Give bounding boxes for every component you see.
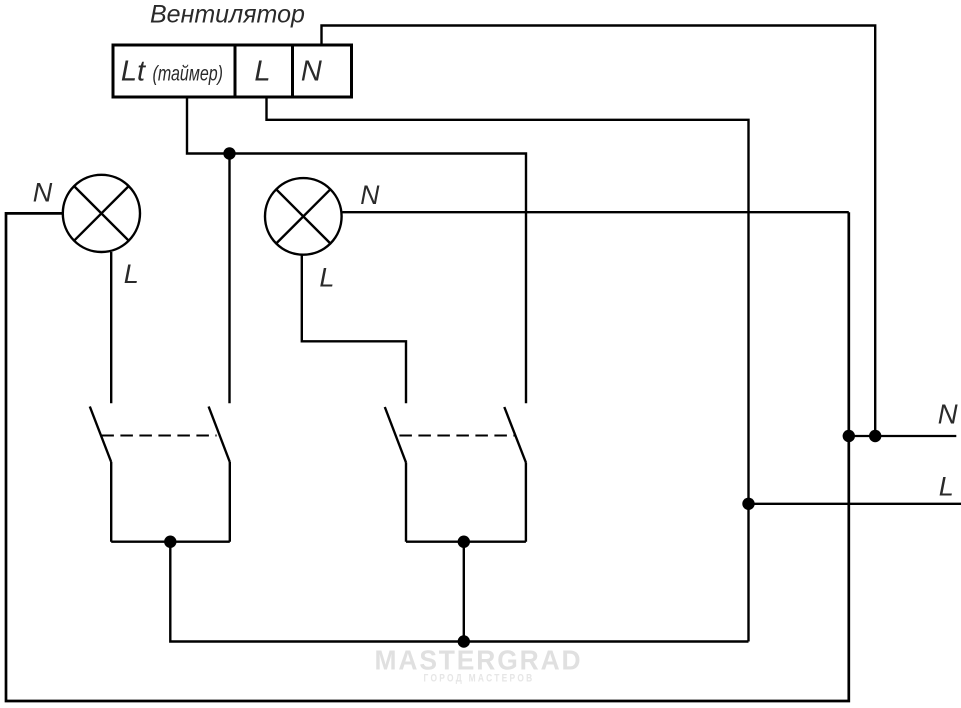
- svg-text:L: L: [124, 259, 139, 289]
- svg-text:N: N: [938, 399, 958, 430]
- svg-text:N: N: [301, 56, 322, 88]
- svg-text:(таймер): (таймер): [153, 63, 224, 86]
- svg-text:L: L: [319, 263, 334, 293]
- svg-text:Lt: Lt: [121, 56, 147, 88]
- svg-text:N: N: [33, 178, 53, 208]
- svg-text:L: L: [939, 472, 954, 502]
- svg-text:L: L: [254, 56, 270, 88]
- svg-text:N: N: [360, 180, 380, 210]
- svg-text:ГОРОД МАСТЕРОВ: ГОРОД МАСТЕРОВ: [424, 673, 535, 685]
- svg-text:MASTERGRAD: MASTERGRAD: [375, 645, 583, 676]
- svg-text:Вентилятор: Вентилятор: [150, 0, 305, 28]
